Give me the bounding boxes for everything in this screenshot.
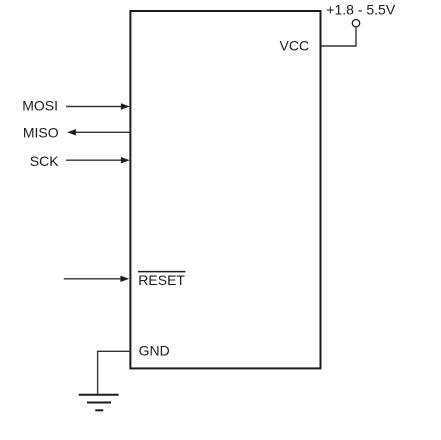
pin label RESET (with overline) bbox=[138, 272, 185, 288]
ground bbox=[79, 395, 119, 411]
supply terminal (open circle) bbox=[352, 20, 359, 27]
wire GND (pin to ground) bbox=[98, 351, 131, 394]
wire/arrow SCK (into device) bbox=[66, 157, 130, 163]
device box (AVR) bbox=[130, 11, 320, 368]
wire/arrow RESET (into device) bbox=[64, 276, 129, 282]
svg-text:RESET: RESET bbox=[138, 272, 185, 288]
svg-text:MISO: MISO bbox=[23, 125, 59, 141]
wire VCC (terminal to pin) bbox=[321, 27, 356, 46]
svg-text:VCC: VCC bbox=[280, 38, 310, 54]
svg-text:MOSI: MOSI bbox=[22, 97, 58, 113]
wire/arrow MOSI (into device) bbox=[66, 103, 130, 109]
wire/arrow MISO (out of device) bbox=[67, 129, 130, 135]
svg-text:SCK: SCK bbox=[30, 153, 59, 169]
svg-text:GND: GND bbox=[139, 343, 170, 359]
svg-text:+1.8 - 5.5V: +1.8 - 5.5V bbox=[326, 2, 396, 18]
